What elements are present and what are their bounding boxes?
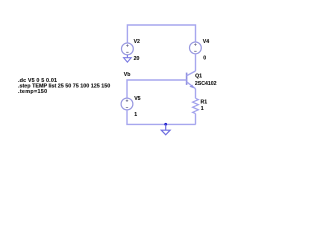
wire emitter to R1 (195, 89, 197, 99)
svg-text:V2: V2 (134, 39, 140, 45)
svg-text:Q1: Q1 (195, 74, 202, 80)
svg-text:R1: R1 (201, 100, 208, 106)
resistor R1 (193, 98, 199, 113)
voltage source V4 (190, 42, 202, 54)
wire V4 bottom to collector (195, 54, 197, 71)
svg-text:V5: V5 (134, 96, 140, 102)
transistor Q1 (187, 71, 196, 89)
wire top horizontal V2 to V4 (127, 25, 195, 43)
wire base Vb (127, 80, 187, 98)
wire R1 bottom (195, 114, 197, 125)
junction dot (164, 123, 167, 126)
svg-text:2SC4102: 2SC4102 (195, 81, 217, 87)
voltage source V5 (121, 98, 133, 110)
svg-text:20: 20 (134, 56, 140, 62)
svg-text:.temp=150: .temp=150 (18, 89, 47, 95)
ground under V2 (124, 55, 132, 62)
voltage source V2 (122, 43, 134, 55)
svg-text:0: 0 (203, 56, 206, 62)
wire V5 bottom to ground rail (127, 110, 196, 125)
svg-text:Vb: Vb (124, 72, 131, 78)
svg-text:1: 1 (134, 112, 137, 118)
ground bottom (161, 124, 170, 134)
svg-text:V4: V4 (203, 39, 209, 45)
svg-text:1: 1 (201, 106, 204, 112)
